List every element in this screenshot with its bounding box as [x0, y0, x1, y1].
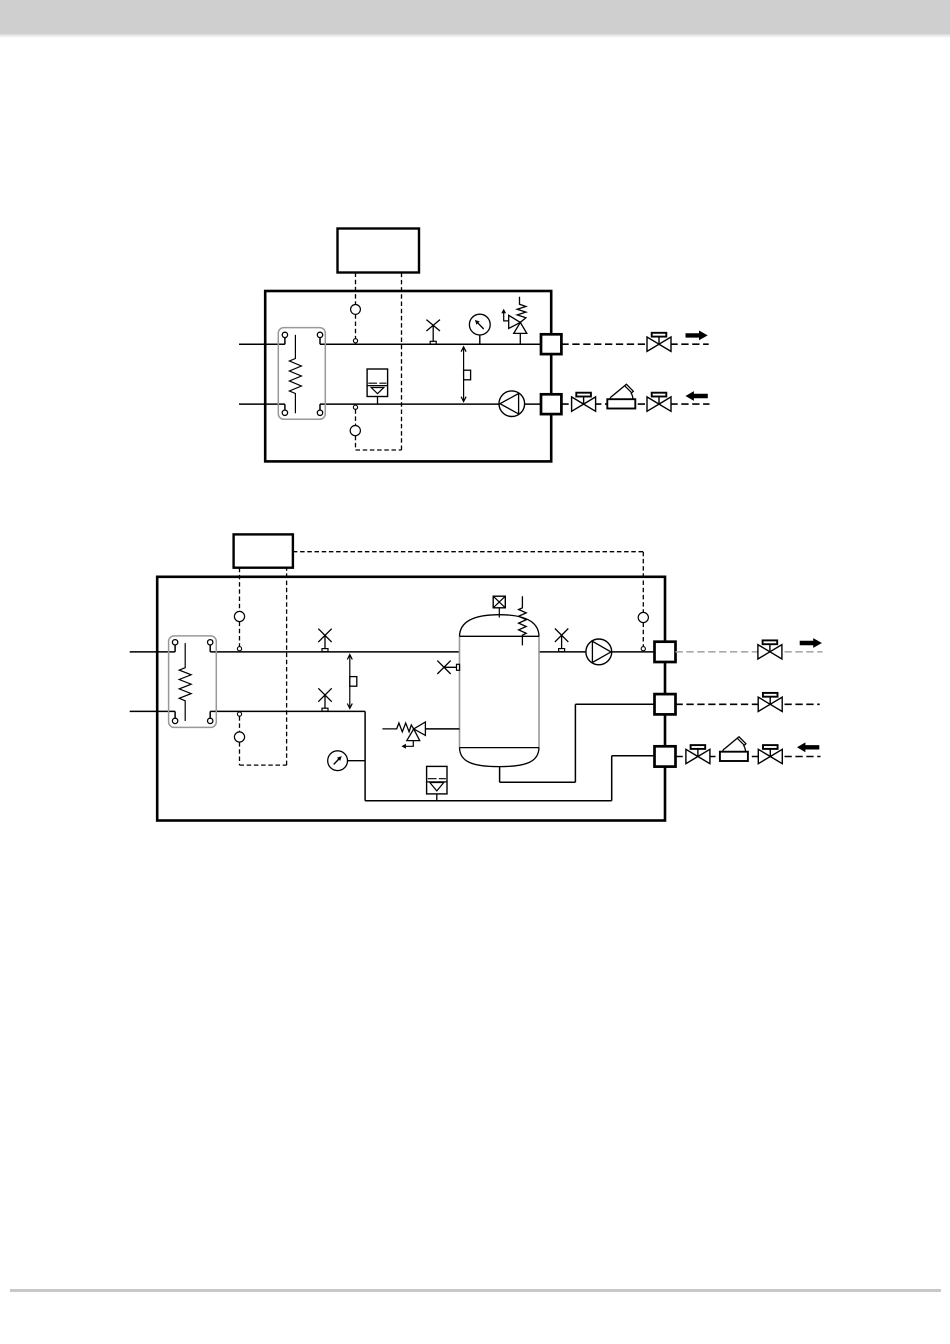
wire: return pipe (bottom): [239, 404, 541, 410]
wire: supply pipe (bottom diagram): [130, 645, 655, 652]
heat exchanger W2 coil: [179, 643, 191, 721]
temperature sensor B4: [234, 732, 244, 742]
drain valve on tank left: [437, 661, 459, 674]
shutoff valve C1: [686, 745, 710, 764]
air vent on tank: [493, 596, 505, 617]
temperature sensor B1: [351, 305, 361, 315]
port square supply: [541, 334, 561, 354]
pump M2: [586, 639, 612, 665]
sensor dashed drop K2 return: [286, 568, 288, 765]
shutoff valve return 1: [572, 393, 596, 412]
expansion vessel N2: [427, 766, 447, 800]
temperature sensor B5: [638, 612, 648, 622]
pressure gauge P2: [328, 751, 365, 771]
heat exchanger W2 ports: [172, 640, 212, 724]
immersion heater element: [519, 596, 527, 645]
expansion vessel N1: [367, 369, 388, 404]
vent valve on return (left): [318, 688, 331, 711]
tap node B5: [641, 647, 645, 651]
pipe tap node for B2: [353, 405, 357, 409]
port square return: [541, 394, 561, 414]
wire: tank bottom to middle port: [500, 704, 655, 782]
pump M1: [499, 391, 525, 417]
controller box K1: [338, 229, 420, 273]
safety valve SV2: [382, 722, 459, 749]
buffer tank top head: [460, 615, 540, 637]
port square C (return in): [655, 746, 676, 766]
port square B (tank connection): [655, 694, 676, 714]
temperature sensor B2: [350, 426, 360, 436]
wire: external supply dashed: [561, 343, 708, 345]
header bar: [0, 0, 950, 37]
footer rule: [10, 1289, 941, 1292]
wire: external return dashed: [561, 403, 709, 405]
wire: supply pipe (top): [239, 338, 541, 345]
flow arrow out (right): [686, 331, 708, 341]
vent valve on supply (left): [318, 629, 331, 652]
dashed control run to right sensor: [293, 552, 643, 647]
main unit box (bottom diagram): [157, 577, 665, 821]
heat exchanger W1 shell: [278, 328, 325, 420]
pipe tap node for B1: [353, 339, 357, 343]
tap node B3: [237, 647, 241, 651]
main unit box (top diagram): [265, 291, 551, 461]
shutoff valve B: [758, 693, 782, 712]
buffer tank bottom head: [460, 748, 540, 767]
strainer (bottom diagram): [720, 737, 748, 761]
buffer tank shell (gray walls): [460, 636, 540, 747]
shutoff valve C2: [758, 745, 782, 764]
wire: return pipe from exchanger: [130, 711, 655, 800]
flow arrow in (left): [686, 391, 708, 401]
vent valve right of tank: [555, 629, 568, 652]
heat exchanger W1 ports: [282, 332, 323, 415]
controller box K2: [234, 534, 293, 567]
pressure gauge P1: [469, 314, 490, 344]
shutoff valve return 2: [647, 393, 671, 412]
sensor dashed line from K1 left drop: [356, 273, 402, 451]
strainer (top diagram): [607, 384, 635, 408]
sensor dashed line K1 right drop: [401, 273, 403, 451]
wire: external middle dashed: [676, 703, 820, 705]
safety valve SV1: [501, 297, 527, 344]
wire: external supply dashed (gray): [676, 651, 823, 653]
wire: external return dashed: [676, 756, 821, 758]
port square A (supply out): [655, 642, 676, 662]
temperature sensor B3: [234, 611, 244, 621]
shutoff valve supply out: [647, 333, 671, 352]
tap node B4: [237, 712, 241, 716]
sensor dashed drop K2 left: [240, 568, 287, 765]
flow arrow C in (left): [797, 742, 819, 752]
differential pressure controller: [461, 347, 471, 402]
shutoff valve A: [758, 640, 782, 659]
vent valve on supply pipe: [426, 320, 440, 345]
heat exchanger W1 coil: [289, 335, 301, 413]
differential pressure controller (bottom): [347, 655, 357, 709]
flow arrow A out (right): [800, 638, 822, 648]
heat exchanger W2 shell: [169, 636, 217, 728]
